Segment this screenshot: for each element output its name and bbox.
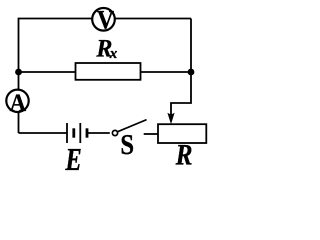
svg-text:V: V (97, 5, 114, 35)
wire: right vertical rail down to elbow (171, 19, 191, 119)
battery E: short plate 1 (72, 128, 75, 137)
ammeter: circle (6, 90, 28, 112)
svg-text:R: R (175, 138, 193, 171)
battery E: long plate 1 (66, 123, 68, 143)
svg-text:A: A (10, 89, 27, 117)
wiper arrowhead onto rheostat (167, 113, 174, 124)
switch S: lever (117, 120, 146, 132)
node: right junction (188, 69, 195, 76)
node: left junction (15, 69, 22, 76)
svg-text:x: x (109, 46, 118, 62)
battery E: short plate 2 (86, 128, 89, 137)
rheostat R: box (158, 124, 206, 143)
wire: battery to switch segment (88, 132, 110, 134)
switch S: pivot circle (112, 130, 117, 135)
battery E: long plate 2 (79, 123, 81, 143)
wire: Rx branch horizontal (19, 71, 192, 73)
svg-text:E: E (65, 142, 82, 172)
resistor Rx: box (76, 63, 141, 80)
voltmeter: circle (92, 8, 115, 31)
wire: switch to rheostat segment (144, 133, 159, 135)
svg-text:S: S (120, 130, 134, 161)
wire: left vertical rail and top rail (19, 19, 192, 134)
wire: bottom rail battery segment (19, 132, 67, 134)
